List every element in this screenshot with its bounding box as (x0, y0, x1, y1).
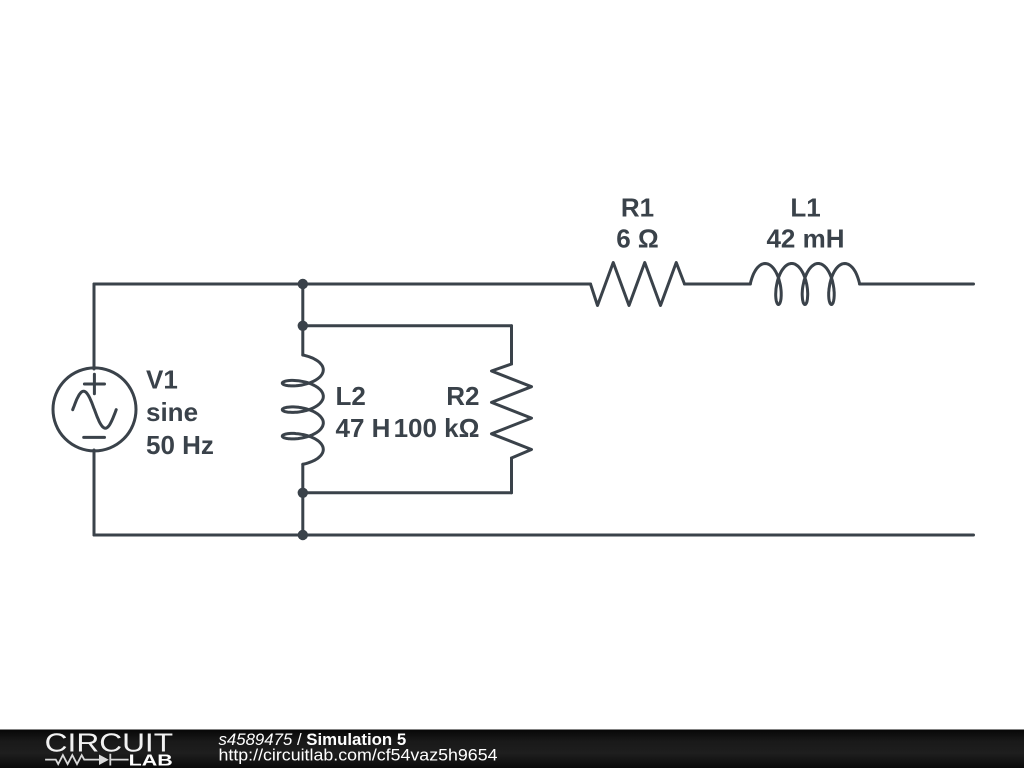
svg-text:R2: R2 (446, 381, 479, 411)
wire branch bottom (R2 to node C) (303, 491, 512, 494)
wire node B to L2 top lead (301, 326, 304, 355)
wire R1 to L1 (685, 283, 751, 286)
svg-text:LAB: LAB (129, 752, 173, 768)
wire L1 to right end (860, 283, 974, 286)
footer black bar (0, 730, 1024, 768)
voltage source V1 minus sign (84, 436, 105, 439)
svg-text:47 H: 47 H (336, 413, 391, 443)
wire top-left horizontal (node A to R1) (94, 283, 591, 286)
svg-text:L1: L1 (790, 192, 820, 222)
svg-text:50 Hz: 50 Hz (146, 430, 214, 460)
svg-text:sine: sine (146, 397, 198, 427)
wire bottom rail (94, 534, 974, 537)
voltage source V1 sine symbol (73, 391, 117, 428)
wire R2 top lead (510, 326, 513, 364)
resistor R1 zigzag (591, 263, 685, 306)
svg-text:100 kΩ: 100 kΩ (394, 413, 480, 443)
wire left vertical bottom (V1 minus terminal to bottom rail) (93, 450, 96, 535)
junction node B dot (298, 321, 308, 331)
svg-text:http://circuitlab.com/cf54vaz5: http://circuitlab.com/cf54vaz5h9654 (219, 746, 498, 764)
junction node A dot (298, 279, 308, 289)
resistor R2 zigzag (492, 364, 532, 458)
wire node A down to node B (301, 284, 304, 326)
svg-text:L2: L2 (336, 381, 366, 411)
logo diode triangle (99, 755, 109, 766)
junction node C dot (298, 488, 308, 498)
wire L2 bottom lead to node C (301, 464, 304, 493)
svg-text:V1: V1 (146, 364, 178, 394)
junction node D dot (bottom rail) (298, 530, 308, 540)
inductor L1 coil (750, 264, 859, 305)
logo diode cathode bar and wire (110, 754, 128, 766)
wire R2 bottom lead (510, 458, 513, 493)
svg-text:42 mH: 42 mH (766, 224, 844, 254)
wire left vertical top (to V1 plus terminal) (93, 284, 96, 369)
wire node C down to bottom rail (301, 493, 304, 535)
svg-text:6 Ω: 6 Ω (616, 224, 659, 254)
wire branch top (node B to R2) (303, 324, 512, 327)
voltage source V1 plus sign (84, 374, 104, 393)
svg-text:R1: R1 (621, 192, 654, 222)
inductor L2 coil (282, 355, 323, 464)
voltage source V1 circle (53, 368, 136, 451)
logo resistor squiggle (45, 755, 99, 764)
